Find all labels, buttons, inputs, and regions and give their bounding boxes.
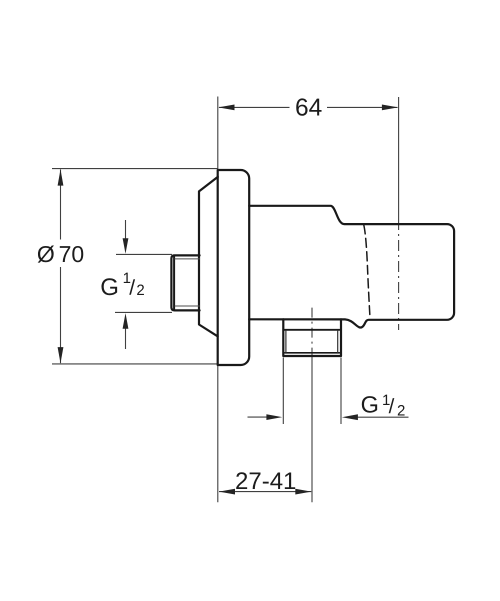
svg-text:70: 70 xyxy=(59,241,85,267)
svg-text:G: G xyxy=(361,391,379,417)
svg-text:64: 64 xyxy=(295,94,322,121)
svg-text:Ø: Ø xyxy=(37,241,55,267)
svg-text:/: / xyxy=(129,276,135,299)
svg-text:/: / xyxy=(389,395,395,418)
svg-text:G: G xyxy=(100,274,119,301)
svg-text:2: 2 xyxy=(397,402,405,419)
svg-text:2: 2 xyxy=(136,282,144,299)
svg-text:27-41: 27-41 xyxy=(235,468,296,495)
